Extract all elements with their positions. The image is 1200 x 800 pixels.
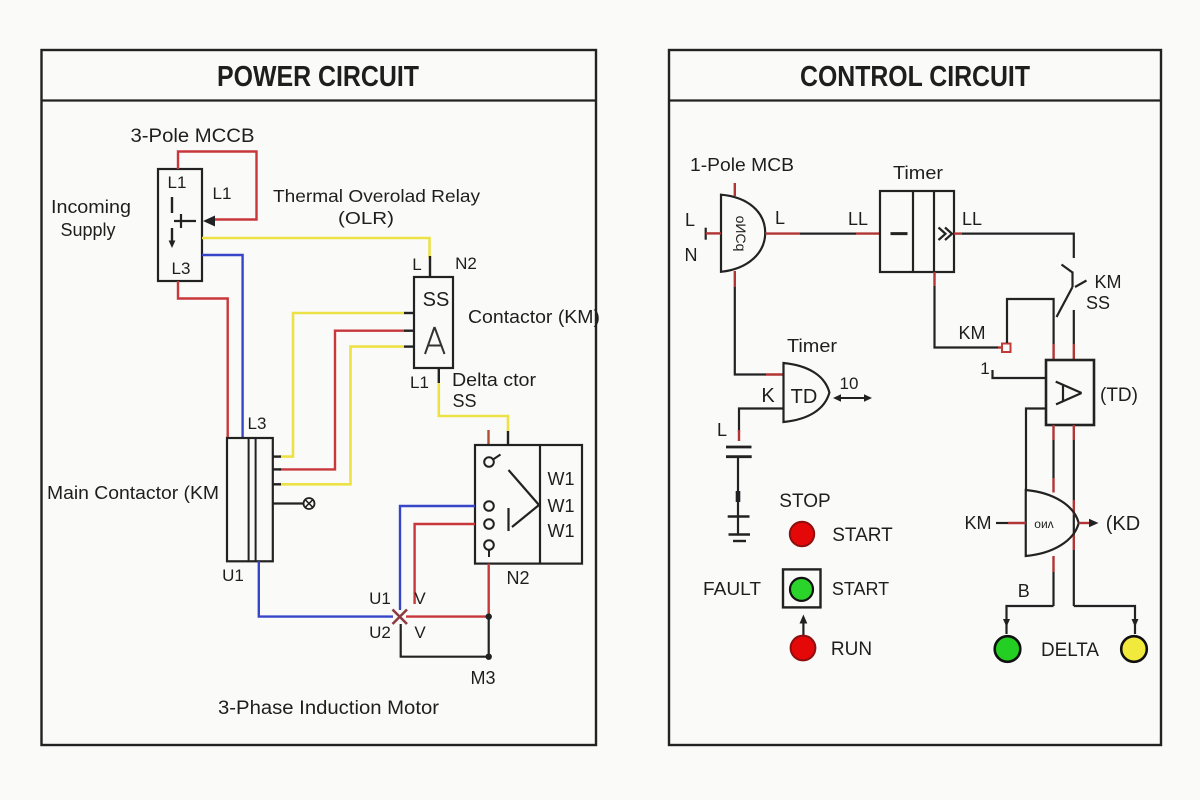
svg-text:W1: W1 xyxy=(548,521,575,541)
svg-text:Timer: Timer xyxy=(787,336,837,356)
coil KD D-shape xyxy=(1026,490,1079,556)
label Incoming Supply xyxy=(51,197,131,240)
wire yellow MCCB to contactor KM top xyxy=(202,238,430,258)
junction dot upper xyxy=(486,613,492,619)
svg-text:LL: LL xyxy=(848,209,868,229)
wire TD bottom left vertical xyxy=(1052,425,1054,493)
svg-text:L1: L1 xyxy=(168,173,187,192)
stub KM contactor bottom xyxy=(438,368,440,383)
terminal circle 2 xyxy=(484,501,494,511)
svg-text:3-Pole MCCB: 3-Pole MCCB xyxy=(131,126,255,147)
svg-text:N2: N2 xyxy=(455,254,477,273)
svg-text:Contactor (KM): Contactor (KM) xyxy=(468,307,600,327)
wire blue motor terminal 2 xyxy=(400,506,475,610)
svg-text:L: L xyxy=(412,255,421,274)
timer dash symbol xyxy=(891,232,908,235)
svg-text:SS: SS xyxy=(1086,293,1110,313)
junction X U1-U2 xyxy=(393,610,408,625)
wire bracket to green delta lamp xyxy=(1007,606,1054,634)
timer TD half shape xyxy=(784,363,830,422)
svg-text:N: N xyxy=(685,245,698,265)
svg-text:Timer: Timer xyxy=(893,163,943,183)
stub MCB top red xyxy=(734,183,736,196)
arrowhead yellow lamp xyxy=(1132,619,1139,627)
svg-text:(KD: (KD xyxy=(1106,513,1140,535)
wire switch down to TD coil xyxy=(1073,310,1075,360)
svg-text:Delta ctor: Delta ctor xyxy=(452,370,536,390)
wire KD coil output arrow xyxy=(1079,519,1099,528)
MCCB trip cross xyxy=(174,214,196,228)
svg-text:Supply: Supply xyxy=(60,220,115,240)
pin1 stub wire xyxy=(993,370,1047,378)
wire red junction to N2 stub xyxy=(406,615,489,617)
wire blue U1 down and right xyxy=(259,561,393,616)
svg-text:Main Contactor (KM: Main Contactor (KM xyxy=(47,483,219,503)
svg-text:K: K xyxy=(761,385,775,407)
svg-text:LL: LL xyxy=(962,209,982,229)
svg-text:M3: M3 xyxy=(470,668,495,688)
wire TD bottom right vertical xyxy=(1073,425,1075,606)
junction dot lower xyxy=(486,654,492,660)
terminal circle 4 with tail xyxy=(484,540,494,557)
wire TD exit to battery xyxy=(739,409,784,442)
run arrow xyxy=(800,615,808,636)
svg-text:L3: L3 xyxy=(172,259,191,278)
wire KM contact up over to TD coil xyxy=(1007,299,1054,360)
terminal circle 3 xyxy=(484,519,494,529)
panel frame CONTROL CIRCUIT xyxy=(669,50,1161,745)
wire MCB to timer xyxy=(765,232,880,234)
contact square red xyxy=(1002,344,1011,353)
svg-text:Thermal Overolad Relay: Thermal Overolad Relay xyxy=(273,186,480,206)
svg-text:L: L xyxy=(685,210,695,230)
svg-text:FAULT: FAULT xyxy=(703,579,761,599)
timer chevron symbol xyxy=(939,228,953,241)
coil TD box xyxy=(1046,360,1094,425)
svg-text:V: V xyxy=(414,623,426,642)
wire blue from MCCB xyxy=(202,255,243,437)
lamp red start xyxy=(790,522,814,546)
svg-text:U2: U2 xyxy=(369,623,391,642)
svg-text:(TD): (TD) xyxy=(1100,385,1138,406)
double arrow 10 xyxy=(833,394,872,401)
timer block xyxy=(880,191,954,272)
wire red loop from MCCB top to trip arrow xyxy=(178,152,257,220)
svg-text:STOP: STOP xyxy=(779,491,830,512)
stub main contactor out2 xyxy=(273,468,281,470)
svg-text:Incoming: Incoming xyxy=(51,197,131,217)
arrowhead into MCCB xyxy=(203,216,215,227)
auxiliary lamp stub xyxy=(273,498,315,509)
svg-text:3-Phase Induction Motor: 3-Phase Induction Motor xyxy=(218,698,440,719)
svg-text:L1: L1 xyxy=(213,184,232,203)
svg-text:1: 1 xyxy=(980,359,989,378)
svg-text:DELTA: DELTA xyxy=(1041,640,1099,661)
breaker MCB D-shape xyxy=(721,195,765,272)
MCCB pole dash upper xyxy=(171,197,173,213)
stub into KM pin3 xyxy=(404,345,414,347)
svg-text:U1: U1 xyxy=(369,589,391,608)
wire timer to KM SS switch xyxy=(954,234,1074,258)
terminal circle 1 with tick xyxy=(484,455,500,467)
svg-text:L: L xyxy=(775,208,785,228)
wire red N2 stub down xyxy=(488,564,490,614)
stub main contactor out1 xyxy=(273,455,281,457)
svg-text:B: B xyxy=(1018,581,1030,601)
svg-text:oИCq: oИCq xyxy=(733,216,749,252)
lamp green DELTA xyxy=(995,636,1021,662)
svg-text:CONTROL CIRCUIT: CONTROL CIRCUIT xyxy=(800,61,1030,93)
svg-text:SS: SS xyxy=(452,391,476,411)
wire bracket to yellow lamp xyxy=(1074,606,1135,634)
wire black U2 loop xyxy=(401,618,489,657)
svg-text:SS: SS xyxy=(423,289,450,311)
wire yellow KM to motor box xyxy=(439,383,508,432)
svg-text:L1: L1 xyxy=(410,373,429,392)
panel frame POWER CIRCUIT xyxy=(42,50,597,745)
battery stack xyxy=(726,447,752,541)
lamp green start xyxy=(790,578,813,601)
wire yellow2 main contactor to KM pin3 xyxy=(279,347,404,485)
letter A in KM box xyxy=(425,327,445,354)
wire MCB bottom down xyxy=(735,271,784,375)
svg-text:L3: L3 xyxy=(248,414,267,433)
glyph A rotated in TD box xyxy=(1056,382,1082,405)
breaker MCCB body xyxy=(158,169,202,281)
svg-text:1-Pole MCB: 1-Pole MCB xyxy=(690,155,794,175)
svg-text:POWER CIRCUIT: POWER CIRCUIT xyxy=(217,61,419,93)
svg-text:KM: KM xyxy=(1095,272,1122,292)
svg-text:START: START xyxy=(832,525,893,546)
main contactor KM body xyxy=(227,438,273,561)
wire red from MCCB bottom to main contactor xyxy=(178,281,228,437)
svg-text:KM: KM xyxy=(959,323,986,343)
wire timer bottom to KM contact xyxy=(935,272,1003,348)
svg-text:TD: TD xyxy=(791,386,818,408)
fault square xyxy=(783,569,821,607)
contactor KM box xyxy=(414,277,453,368)
svg-text:oиʌ: oиʌ xyxy=(1034,517,1053,531)
svg-text:W1: W1 xyxy=(548,496,575,516)
svg-text:(OLR): (OLR) xyxy=(338,208,394,228)
wire yellow main contactor to KM pin1 xyxy=(279,313,404,457)
svg-text:10: 10 xyxy=(840,374,859,393)
lamp red RUN xyxy=(791,636,816,661)
svg-text:L: L xyxy=(717,420,727,440)
wire red motor terminal 3 xyxy=(415,524,475,604)
MCCB pole dash lower with arrow xyxy=(169,228,176,248)
stub main contactor out3 xyxy=(273,483,281,485)
svg-text:KM: KM xyxy=(965,513,992,533)
svg-text:W1: W1 xyxy=(548,469,575,489)
stub into KM pin2 xyxy=(404,330,414,332)
stub motor box top red xyxy=(487,430,489,445)
svg-text:START: START xyxy=(832,579,889,599)
svg-text:V: V xyxy=(414,589,426,608)
svg-text:RUN: RUN xyxy=(831,639,872,660)
delta symbol in motor box xyxy=(509,470,540,531)
stub KM contactor top xyxy=(429,256,431,277)
stub into KM pin1 xyxy=(404,312,414,314)
arrowhead green lamp xyxy=(1003,619,1010,627)
wire TD box left lower stub xyxy=(1026,409,1046,491)
lamp yellow xyxy=(1121,636,1147,662)
wire KD coil bottom xyxy=(1052,556,1054,606)
wire red main contactor to KM pin2 xyxy=(279,331,404,470)
MCB left terminal tick xyxy=(706,228,721,240)
switch KM SS xyxy=(1057,265,1087,318)
svg-text:U1: U1 xyxy=(222,566,244,585)
stub motor box top black xyxy=(507,431,509,445)
svg-text:N2: N2 xyxy=(506,568,529,588)
wire KM to KD coil xyxy=(996,522,1026,524)
motor terminal box xyxy=(475,445,582,564)
